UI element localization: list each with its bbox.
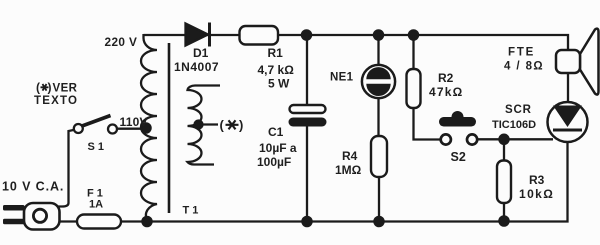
label 110V — [120, 115, 148, 129]
node: top rail junction R2 — [409, 30, 418, 39]
svg-text:220 V: 220 V — [105, 35, 138, 49]
wire: R3 branch — [503, 139, 505, 221]
label R4 1MΩ — [335, 149, 362, 177]
node: bottom rail junction R3 — [499, 216, 508, 225]
label R1 4,7kΩ 5W — [258, 46, 295, 91]
svg-text:100µF: 100µF — [257, 155, 291, 169]
svg-text:S 1: S 1 — [88, 141, 105, 153]
label SCR TIC106D — [492, 104, 536, 131]
svg-text:TIC106D: TIC106D — [492, 119, 536, 131]
label F1 1A — [87, 188, 103, 211]
label S2 — [451, 150, 466, 164]
wire: top rail from 220V tap to speaker — [144, 35, 569, 50]
svg-text:1MΩ: 1MΩ — [335, 163, 362, 177]
node: bottom rail junction R4 — [374, 217, 383, 226]
svg-text:110V: 110V — [120, 115, 148, 129]
svg-text:): ) — [239, 118, 243, 133]
secondary center tap with wire — [195, 121, 219, 129]
svg-text:TEXTO: TEXTO — [34, 95, 78, 107]
wire: NE1 branch — [377, 35, 379, 136]
svg-text:R1: R1 — [268, 46, 284, 60]
label (*) near tap — [220, 118, 244, 133]
diode D1 — [186, 23, 210, 47]
label R2 47kΩ — [429, 71, 463, 99]
node: R3 top junction — [499, 135, 508, 144]
AC plug — [3, 203, 69, 230]
transformer T1 primary winding — [141, 34, 157, 220]
label D1 1N4007 — [174, 46, 219, 74]
speaker FTE — [556, 29, 599, 95]
label R3 10kΩ — [519, 173, 554, 201]
svg-text:10kΩ: 10kΩ — [519, 187, 554, 201]
svg-text:47kΩ: 47kΩ — [429, 85, 463, 99]
resistor R3 — [497, 161, 511, 204]
wire: speaker to SCR — [567, 73, 569, 102]
svg-text:SCR: SCR — [505, 104, 532, 116]
label C1 10µF a 100µF — [257, 125, 297, 169]
wire: R4 to bottom rail — [378, 177, 380, 222]
label T1 — [183, 205, 199, 217]
label FTE 4/8Ω — [504, 47, 544, 73]
resistor R2 — [407, 69, 421, 108]
neon lamp NE1 — [362, 65, 395, 98]
svg-text:5 W: 5 W — [268, 77, 290, 91]
resistor R4 — [371, 136, 387, 177]
node: top rail junction C1 — [302, 30, 311, 39]
svg-text:VER: VER — [53, 83, 78, 95]
svg-text:S2: S2 — [451, 150, 466, 164]
capacitor C1 — [289, 105, 327, 127]
node: bottom rail junction T1 — [142, 217, 151, 226]
svg-text:C1: C1 — [268, 125, 284, 139]
svg-text:(: ( — [36, 81, 40, 95]
svg-text:1A: 1A — [89, 199, 103, 211]
node: 110V tap on primary — [141, 123, 150, 132]
label NE1 — [330, 72, 354, 84]
svg-text:R4: R4 — [342, 149, 358, 163]
svg-text:T 1: T 1 — [183, 205, 199, 217]
svg-text:R3: R3 — [529, 173, 545, 187]
switch S1 — [69, 116, 143, 204]
svg-text:FTE: FTE — [508, 47, 535, 59]
node: bottom rail junction C1 — [302, 217, 311, 226]
svg-text:NE1: NE1 — [330, 72, 354, 84]
label S1 — [88, 141, 105, 153]
svg-text:10 V C.A.: 10 V C.A. — [2, 180, 64, 194]
node: top rail junction NE1 — [374, 30, 383, 39]
resistor R1 — [240, 26, 279, 45]
wire: C1 branch — [306, 35, 308, 222]
svg-text:(: ( — [220, 118, 225, 133]
fuse F1 — [77, 215, 121, 229]
wire: gate from S2 to SCR — [477, 138, 553, 140]
label 220V — [105, 35, 138, 49]
SCR TIC106D — [548, 102, 588, 142]
svg-text:4 / 8Ω: 4 / 8Ω — [504, 61, 544, 73]
label 10 V C.A. — [2, 180, 64, 194]
svg-text:D1: D1 — [193, 46, 209, 60]
pushbutton S2 — [439, 111, 477, 145]
svg-text:10µF a: 10µF a — [259, 141, 297, 155]
wire: R2 branch — [414, 35, 440, 140]
svg-text:R2: R2 — [438, 71, 454, 85]
transformer core — [168, 43, 171, 213]
transformer T1 secondary winding — [188, 85, 221, 164]
svg-text:4,7 kΩ: 4,7 kΩ — [258, 63, 295, 77]
svg-text:1N4007: 1N4007 — [174, 60, 219, 74]
label (*) VER TEXTO — [34, 81, 78, 108]
wire: bottom rail — [59, 142, 568, 222]
